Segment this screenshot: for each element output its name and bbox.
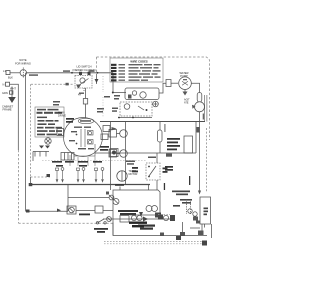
wire codes legend box — [110, 58, 163, 82]
pressure switch contacts — [187, 199, 201, 224]
wire label BLU — [89, 70, 95, 72]
main lower bus (thick) — [30, 177, 32, 185]
main center bus — [100, 121, 205, 123]
arrow on dashed edge — [95, 79, 99, 83]
lamp on line — [107, 217, 112, 222]
motor inline connector — [57, 129, 64, 136]
connector labels — [114, 95, 120, 100]
agitate circle — [184, 99, 205, 120]
drive motor M1 — [64, 118, 103, 157]
temp switch body — [184, 136, 193, 153]
end blob — [202, 241, 207, 246]
connector dot — [106, 192, 109, 195]
lid lock lamp — [113, 199, 119, 205]
temp switch text — [167, 138, 180, 150]
wire L1 drop — [25, 73, 27, 211]
ground cabinet — [2, 87, 16, 112]
terminal L1 — [3, 69, 13, 80]
svg-text:ATE: ATE — [184, 102, 189, 105]
inner dashed box left edge — [30, 84, 32, 177]
svg-text:FRAME: FRAME — [3, 108, 12, 112]
timer switch bank labels — [52, 161, 102, 167]
aux contact circle — [153, 101, 159, 107]
micro text — [53, 93, 84, 106]
dashed row — [42, 160, 146, 162]
timer contact 2 — [109, 150, 127, 158]
wire — [103, 210, 113, 212]
pump inline connector — [166, 80, 171, 87]
drain vertical — [180, 222, 185, 236]
small label — [79, 214, 90, 216]
svg-text:(VIEWED CLOSED): (VIEWED CLOSED) — [72, 68, 95, 72]
junction dot C — [112, 92, 114, 94]
valve bottom wires — [190, 224, 212, 238]
tick on dashed edge — [66, 83, 69, 86]
wire lid to motor — [85, 88, 87, 118]
mid bus — [95, 152, 196, 154]
tub text — [129, 222, 147, 228]
spin solenoid — [139, 206, 161, 218]
connector blob — [197, 127, 200, 133]
texts right of note box — [66, 118, 173, 171]
blob on bottom line — [160, 233, 164, 237]
timer motor — [117, 170, 138, 181]
fuse box — [95, 206, 103, 213]
motor bottom risers — [70, 155, 95, 166]
big lower box — [113, 190, 160, 235]
inner dashed box top edge — [31, 83, 74, 85]
arrow — [57, 209, 61, 213]
sub line — [118, 117, 152, 119]
vertical wire label — [164, 124, 165, 132]
capacitor C1 — [197, 93, 202, 103]
wire pump out — [191, 83, 199, 193]
stray dashes — [158, 214, 170, 216]
water valve solenoid pair box — [125, 88, 159, 100]
junction blob — [29, 183, 33, 186]
console dashed box left — [18, 150, 20, 223]
neutral run — [26, 210, 69, 212]
wire label BLK — [63, 70, 70, 72]
wire corner to bus — [113, 73, 126, 93]
junction dot A — [71, 72, 73, 74]
wire to pump — [159, 83, 166, 93]
console lamp — [45, 138, 51, 144]
vertical wires right bus — [204, 95, 206, 122]
cabinet dashed faint drop — [102, 76, 104, 92]
inline connector — [83, 99, 87, 105]
micro labels scatter — [97, 96, 156, 165]
bottom solid line — [113, 223, 207, 236]
bottom bus of box — [130, 214, 160, 216]
lid switch S1 — [75, 72, 97, 97]
lid switch label — [72, 65, 95, 72]
junction dot B — [97, 72, 99, 74]
timer switch dashed box — [120, 102, 152, 116]
svg-text:NOTE: NOTE — [19, 58, 26, 62]
junction blob — [26, 210, 30, 213]
switch bank contacts — [56, 168, 104, 183]
crossing circle — [109, 195, 114, 200]
cabinet dashed box left stub — [96, 57, 98, 76]
unbalance switch on dashed line — [94, 219, 108, 233]
ground pump — [183, 90, 188, 96]
wire — [156, 153, 158, 163]
wiring note box — [35, 107, 64, 137]
label yel vertical — [164, 176, 191, 190]
connector P1 — [20, 68, 26, 79]
motor switch label — [138, 225, 155, 230]
svg-text:FOR WIRING: FOR WIRING — [15, 62, 31, 66]
connector mark — [47, 174, 51, 177]
faint dotted drop — [102, 97, 104, 117]
motor switch line — [103, 218, 172, 220]
wire motor to cluster — [74, 155, 95, 157]
svg-text:GRN: GRN — [2, 91, 8, 95]
wire — [171, 82, 178, 84]
push-start dashed box — [146, 163, 160, 180]
resistor R1 — [158, 130, 163, 142]
left timer column — [110, 122, 112, 191]
svg-text:WHT: WHT — [10, 87, 16, 91]
junction dots — [118, 117, 120, 119]
svg-text:WIRE CODES: WIRE CODES — [130, 59, 148, 63]
console light — [67, 206, 76, 214]
terminal GRN — [2, 91, 13, 95]
svg-text:MOTOR: MOTOR — [129, 173, 138, 176]
svg-text:BLK: BLK — [8, 76, 13, 80]
svg-text:DRIVE: DRIVE — [58, 114, 66, 118]
motor connector block — [61, 153, 74, 161]
note text top-left — [15, 58, 31, 66]
wire — [206, 95, 208, 122]
cabinet dashed box top — [97, 57, 210, 140]
svg-text:4A: 4A — [78, 94, 81, 97]
wire — [76, 210, 95, 212]
pump motor M2 — [179, 77, 192, 90]
connector comb — [33, 146, 50, 162]
svg-text:N: N — [3, 83, 5, 87]
bus end drop — [148, 185, 150, 191]
wire label at entry — [29, 74, 38, 76]
inner dashed box bottom stub — [31, 176, 51, 178]
motor label — [58, 111, 66, 118]
wire L1 main — [27, 72, 114, 74]
tick — [119, 187, 121, 191]
wire N — [10, 84, 19, 150]
pressure switch label — [172, 191, 192, 207]
wire L1 — [10, 72, 20, 74]
timer contact 1 — [101, 126, 127, 140]
bottom dotted gray line — [104, 241, 206, 243]
dashed feed to valve — [206, 128, 208, 192]
right branch box — [195, 122, 197, 154]
arrow into valve — [198, 191, 201, 195]
water level cluster — [110, 149, 118, 157]
connector mark mid — [166, 154, 172, 157]
terminal N — [3, 82, 17, 90]
box bottom text — [118, 210, 138, 215]
pump label — [179, 71, 188, 78]
contacts — [120, 215, 175, 223]
console dashed box bottom — [19, 222, 114, 224]
label — [132, 167, 168, 173]
water valve box — [200, 197, 211, 224]
lamp feed line — [68, 197, 109, 199]
